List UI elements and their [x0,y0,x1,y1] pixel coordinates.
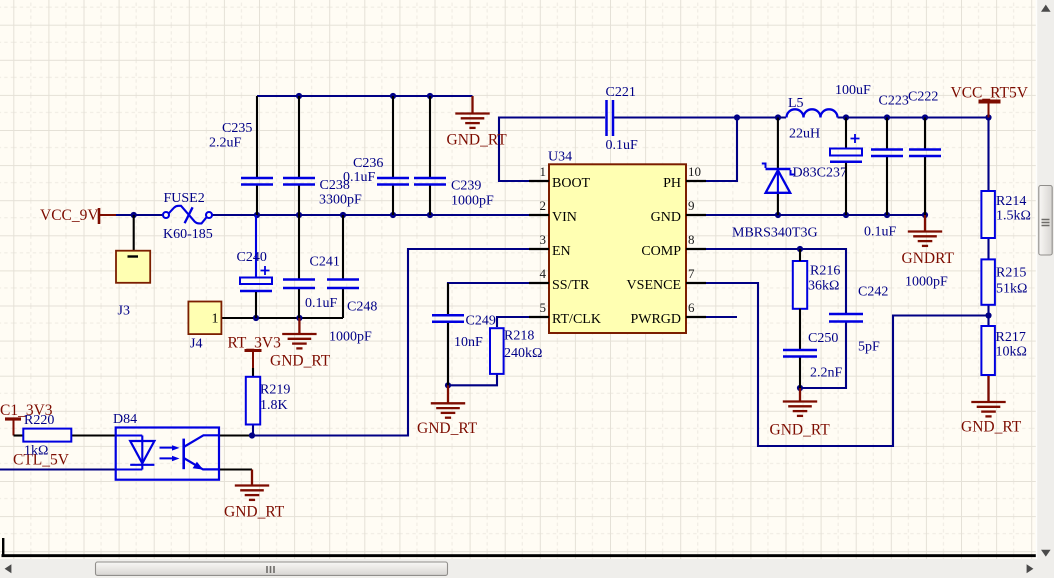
svg-text:10kΩ: 10kΩ [996,345,1027,360]
svg-text:GNDRT: GNDRT [902,250,955,267]
wire J4 rail [221,317,343,319]
svg-text:1: 1 [540,164,547,179]
svg-text:2: 2 [540,198,547,213]
connector J3 [116,215,150,283]
junction at 393,215 [390,212,396,218]
svg-text:2.2nF: 2.2nF [810,366,843,381]
svg-text:GND_RT: GND_RT [270,353,331,370]
capacitor C239 [414,96,446,215]
wire R215 to R217 [987,305,989,326]
svg-text:C250: C250 [808,331,838,346]
svg-text:D84: D84 [113,412,137,427]
svg-text:10nF: 10nF [454,335,483,350]
junction at 887,117.5 [884,114,890,120]
svg-text:R215: R215 [996,266,1026,281]
wire R220 to opto [71,434,115,436]
ground GNDRT [908,215,942,246]
U34 pin stubs [529,181,706,317]
svg-text:C223: C223 [879,94,909,109]
svg-text:R216: R216 [810,264,840,279]
inductor L5 [787,109,838,117]
svg-text:R214: R214 [996,194,1026,209]
svg-text:C236: C236 [353,156,383,171]
resistor R219 [246,377,260,425]
svg-text:1: 1 [212,312,219,327]
junction at 343,215 [340,212,346,218]
svg-text:22uH: 22uH [789,127,820,142]
svg-text:C242: C242 [858,285,888,300]
wire switch node C221 to L5 [614,116,786,118]
svg-text:VSENCE: VSENCE [627,278,681,293]
svg-text:240kΩ: 240kΩ [504,346,542,361]
wire R217 to ground [987,375,989,401]
svg-text:0.1uF: 0.1uF [343,170,376,185]
connector J4 [188,302,221,335]
wire SS/TR to C249 [448,283,549,314]
junction at 925,215 [922,212,928,218]
svg-text:RT/CLK: RT/CLK [552,312,601,327]
wire PH pin to switch node [686,120,737,181]
svg-text:7: 7 [688,266,695,281]
capacitor C249 [432,283,464,385]
capacitor C221 [607,100,614,136]
junction at 846,215 [843,212,849,218]
svg-text:0.1uF: 0.1uF [305,296,338,311]
svg-text:1.8K: 1.8K [260,398,288,413]
junction at 800,249 [797,246,803,252]
polarized capacitor C240 [240,215,272,318]
wire VCC_9V to fuse [116,214,163,216]
ground GND_RT near J4 [282,318,316,348]
svg-text:C240: C240 [237,250,267,265]
svg-text:C239: C239 [451,179,481,194]
svg-text:EN: EN [552,244,571,259]
svg-text:FUSE2: FUSE2 [164,191,205,206]
power port RT_3V3 [245,351,262,377]
svg-text:VCC_9V: VCC_9V [40,207,99,224]
svg-text:C221: C221 [606,85,636,100]
wire opto emitter to ground [219,468,252,470]
svg-text:1000pF: 1000pF [329,330,372,345]
svg-text:C235: C235 [222,121,252,136]
svg-text:RT_3V3: RT_3V3 [228,335,282,352]
svg-text:C248: C248 [347,300,377,315]
svg-text:0.1uF: 0.1uF [606,138,639,153]
junction at 778,117.5 [775,114,781,120]
svg-text:3300pF: 3300pF [319,193,362,208]
svg-text:J4: J4 [190,337,202,352]
wire L5 to VCC_RT5V node [838,116,989,118]
wire PWRGD stub [686,316,737,318]
power port VCC_9V [99,208,116,224]
junction at 256,318 [253,315,259,321]
resistor R215 [981,259,995,304]
svg-text:5pF: 5pF [858,340,880,355]
junction at 393,96 [390,93,396,99]
wire VSENCE feedback loop [686,283,989,446]
svg-text:1000pF: 1000pF [451,194,494,209]
wire GND pin rail [686,214,925,216]
svg-text:51kΩ: 51kΩ [996,282,1027,297]
ground GND_RT top [455,96,489,128]
svg-text:GND_RT: GND_RT [961,419,1022,436]
capacitor C236 [377,96,409,215]
capacitor C242 [829,314,863,322]
junction at 925,117.5 [922,114,928,120]
capacitor C222 [909,118,941,216]
ground GND_RT below opto [235,470,269,500]
ground GND_RT below C249 [431,385,465,417]
svg-text:R217: R217 [996,330,1026,345]
svg-text:36kΩ: 36kΩ [808,279,839,294]
wire CTL_5V to opto [0,468,116,470]
junction at 988.5,315.5 [985,312,991,318]
wire fuse to VIN rail [211,214,549,216]
ground GND_RT below R217 [971,375,1005,416]
power port VCC_RT5V [979,102,1001,118]
svg-text:L5: L5 [788,96,804,111]
junction at 133.7,215 [131,212,137,218]
svg-text:R218: R218 [504,329,534,344]
junction at 430,215 [427,212,433,218]
svg-text:2.2uF: 2.2uF [209,136,242,151]
svg-text:GND: GND [651,210,681,225]
svg-text:3: 3 [540,232,547,247]
R216 pins [799,249,801,349]
capacitor C235 [241,96,273,215]
svg-text:GND_RT: GND_RT [224,504,285,521]
sheet border bottom [2,554,1038,557]
wire R218 bottom to ground node [448,375,497,386]
svg-text:C222: C222 [908,90,938,105]
wire VCC node to R214 [987,118,989,192]
svg-text:1000pF: 1000pF [905,275,948,290]
wire opto collector to node [219,434,252,436]
svg-text:C249: C249 [466,314,496,329]
power port C1_3V3 [5,419,23,436]
svg-text:GND_RT: GND_RT [417,420,478,437]
svg-text:PH: PH [663,176,681,191]
svg-text:9: 9 [688,198,695,213]
wire RT/CLK to R218 [497,317,549,327]
svg-text:VCC_RT5V: VCC_RT5V [951,85,1029,102]
wire input cap top rail [257,95,473,97]
capacitor C248 [327,215,359,318]
junction at 299,215 [296,212,302,218]
svg-text:U34: U34 [548,150,572,165]
fuse FUSE2 [163,206,212,224]
junction at 252,435.5 [249,432,255,438]
wire BOOT to C221 [499,118,605,182]
capacitor C241 [283,215,315,318]
vertical scrollbar [1037,0,1054,578]
resistor R216 [793,261,807,309]
svg-text:6: 6 [688,300,695,315]
diode D83 MBRS340T3G [762,118,794,216]
junction at 430,96 [427,93,433,99]
junction at 257,215 [254,212,260,218]
svg-text:SS/TR: SS/TR [552,278,590,293]
capacitor C238 [283,96,315,215]
svg-text:8: 8 [688,232,695,247]
svg-text:4: 4 [540,266,547,281]
svg-text:100uF: 100uF [835,83,871,98]
junction at 887,215 [884,212,890,218]
junction at 778,215 [775,212,781,218]
junction at 299,96 [296,93,302,99]
svg-text:COMP: COMP [641,244,681,259]
svg-text:MBRS340T3G: MBRS340T3G [732,226,818,241]
svg-text:PWRGD: PWRGD [630,312,681,327]
svg-text:K60-185: K60-185 [163,227,213,242]
optocoupler D84 [116,428,219,480]
svg-text:GND_RT: GND_RT [447,132,508,149]
resistor R214 [981,191,995,238]
horizontal scrollbar [0,559,1037,578]
svg-text:1.5kΩ: 1.5kΩ [996,209,1031,224]
wire EN to R219/opto node [252,249,549,436]
junction at 846,117.5 [843,114,849,120]
junction at 299.4,318 [296,315,302,321]
wire R214 to R215 [987,238,989,259]
svg-text:R220: R220 [24,413,54,428]
svg-text:BOOT: BOOT [552,176,591,191]
junction at 988.5,117.5 [985,114,991,120]
junction at 800,388 [797,385,803,391]
capacitor C250 [783,350,817,388]
svg-text:C241: C241 [310,255,340,270]
svg-text:10: 10 [688,164,701,179]
svg-text:GND_RT: GND_RT [770,422,831,439]
polarized capacitor C237 [830,118,862,216]
svg-text:VIN: VIN [552,210,577,225]
op-amp U34 regulator IC [549,164,686,333]
svg-text:J3: J3 [118,304,130,319]
capacitor C223 [871,118,903,216]
junction at 448,385.3 [445,382,451,388]
svg-text:D83C237: D83C237 [793,166,847,181]
svg-text:1kΩ: 1kΩ [24,444,48,459]
wire R219 bottom [252,425,254,436]
wire C249 bottom to ground node [447,323,449,385]
svg-text:5: 5 [540,300,547,315]
ground GND_RT below C250 [783,388,817,416]
resistor R217 [981,326,995,375]
wire C242 bottom to C250 junction [800,323,846,389]
resistor R220 [23,429,71,442]
wire COMP to C242 top [686,249,846,313]
svg-text:0.1uF: 0.1uF [864,225,897,240]
svg-text:R219: R219 [260,383,290,398]
resistor R218 [490,328,504,374]
junction at 737,117.5 [734,114,740,120]
